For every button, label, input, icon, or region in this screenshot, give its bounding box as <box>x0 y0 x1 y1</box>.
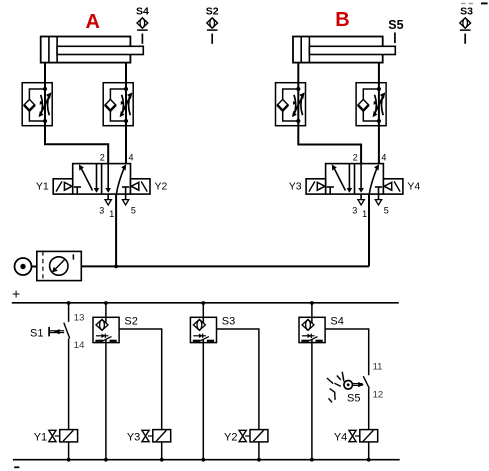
svg-text:1: 1 <box>362 209 367 219</box>
sensor position marker S2 <box>206 6 219 44</box>
wire Y2 to minus rail <box>258 442 260 460</box>
svg-text:Y1: Y1 <box>34 431 47 443</box>
junction minus rail x=105.9 <box>104 458 108 462</box>
one-way flow control valve cylinder A cap side <box>22 83 52 126</box>
svg-text:4: 4 <box>128 153 133 163</box>
coil Y3 <box>142 430 171 442</box>
port labels 2 4 3 1 5 <box>352 153 389 220</box>
junction minus rail x=311.9 <box>310 458 314 462</box>
wire supply manifold <box>81 265 369 267</box>
svg-text:A: A <box>86 11 100 33</box>
wire branch 2 lower <box>105 343 107 460</box>
svg-text:S4: S4 <box>330 316 343 328</box>
exhaust arrow port 5 <box>122 194 128 205</box>
pushbutton S1 <box>49 323 70 339</box>
junction minus rail x=368.7 <box>367 458 371 462</box>
cylinder B <box>293 37 395 63</box>
svg-text:11: 11 <box>373 362 383 373</box>
proximity switch S3 <box>190 317 216 342</box>
svg-text:Y1: Y1 <box>36 181 49 193</box>
cylinder A <box>41 37 144 63</box>
svg-text:Y3: Y3 <box>127 431 140 443</box>
svg-text:2: 2 <box>100 153 105 163</box>
svg-text:14: 14 <box>74 340 85 351</box>
svg-text:3: 3 <box>352 206 357 216</box>
junction minus rail x=161.7 <box>160 458 164 462</box>
wire S5 to Y4 <box>368 388 370 429</box>
exhaust arrow port 3 <box>358 194 364 205</box>
svg-text:Y4: Y4 <box>334 431 347 443</box>
svg-text:S4: S4 <box>136 6 149 18</box>
limit switch S5 (roller lever) <box>327 372 369 403</box>
svg-text:S5: S5 <box>388 18 403 32</box>
wire source to service unit <box>32 266 37 268</box>
wire Y4 to minus rail <box>368 442 370 460</box>
wire valve B port 1 to supply <box>368 194 370 266</box>
one-way flow control valve cylinder B cap side <box>276 83 306 126</box>
svg-text:12: 12 <box>373 390 384 401</box>
faint crop marks above S3 <box>461 3 473 5</box>
wire Y1 to minus rail <box>68 442 70 460</box>
wire branch 4 upper <box>311 303 313 317</box>
svg-text:1: 1 <box>109 209 114 219</box>
junction minus rail x=203.3 <box>201 458 205 462</box>
wire cylinder B right port to valve port 4 <box>378 63 380 164</box>
wire branch 4 lower <box>311 343 313 460</box>
svg-text:B: B <box>335 9 349 31</box>
junction plus rail x=311.9 <box>310 301 314 305</box>
contact pin labels 11 12 <box>373 362 384 401</box>
wire S4 output to S5 <box>325 329 369 375</box>
wire Y3 to minus rail <box>161 442 163 460</box>
wire branch 2 upper <box>105 303 107 317</box>
svg-text:13: 13 <box>74 312 85 323</box>
coil Y2 <box>239 430 268 442</box>
one-way flow control valve cylinder B rod side <box>356 83 386 126</box>
electrical rail plus <box>12 286 399 303</box>
electrical rail minus <box>13 460 400 468</box>
wire branch 3 lower <box>202 343 204 460</box>
svg-text:5: 5 <box>384 206 389 216</box>
service unit with pressure gauge <box>37 251 82 280</box>
svg-text:Y4: Y4 <box>407 181 420 193</box>
wire branch 3 upper <box>202 303 204 317</box>
solenoid Y3 <box>306 179 326 194</box>
svg-text:Y2: Y2 <box>224 431 237 443</box>
junction plus rail x=105.9 <box>104 301 108 305</box>
port labels 2 4 3 1 5 <box>99 153 136 220</box>
wire valve A port 1 to supply <box>115 194 117 266</box>
svg-text:Y3: Y3 <box>289 181 302 193</box>
svg-text:+: + <box>12 286 20 302</box>
exhaust arrow port 5 <box>375 194 381 205</box>
wire cylinder A right port to valve port 4 <box>125 63 127 164</box>
wire cylinder B left port to valve port 2 <box>298 63 361 164</box>
wire S2 output to Y3 <box>119 329 162 430</box>
junction plus rail x=203.3 <box>201 301 205 305</box>
svg-text:2: 2 <box>353 153 358 163</box>
solenoid Y1 <box>53 179 72 194</box>
svg-text:Y2: Y2 <box>155 181 168 193</box>
proximity switch S4 <box>299 317 325 342</box>
svg-text:S3: S3 <box>222 316 235 328</box>
wire S3 output to Y2 <box>217 329 259 430</box>
wire cylinder A left port to valve port 2 <box>45 63 108 164</box>
solenoid Y4 <box>383 179 403 194</box>
svg-text:4: 4 <box>381 153 386 163</box>
sensor position marker S3 <box>460 6 473 44</box>
svg-text:S5: S5 <box>347 393 360 405</box>
coil Y1 <box>49 430 78 442</box>
coil Y4 <box>349 430 378 442</box>
compressed air source <box>15 258 32 275</box>
svg-text:S1: S1 <box>30 327 43 339</box>
contact pin labels 13 14 <box>74 312 85 351</box>
svg-text:S2: S2 <box>206 6 219 18</box>
proximity switch S2 <box>93 317 119 342</box>
ruler end mark <box>481 2 488 4</box>
5/2-way valve Y3/Y4 <box>326 164 384 195</box>
one-way flow control valve cylinder A rod side <box>103 83 133 126</box>
svg-text:5: 5 <box>131 206 136 216</box>
junction minus rail x=258.9 <box>257 458 261 462</box>
solenoid Y2 <box>131 179 151 194</box>
sensor position marker S5 <box>388 18 403 43</box>
wire branch 1 lower <box>68 338 70 429</box>
wire branch 1 upper <box>68 303 70 322</box>
svg-text:S3: S3 <box>460 6 473 18</box>
junction minus rail x=68.6 <box>67 458 71 462</box>
svg-text:S2: S2 <box>124 316 137 328</box>
junction plus rail x=68.6 <box>67 301 71 305</box>
svg-text:3: 3 <box>99 206 104 216</box>
junction supply / valve A <box>114 265 118 269</box>
sensor position marker S4 <box>136 6 149 44</box>
exhaust arrow port 3 <box>105 194 111 205</box>
5/2-way valve Y1/Y2 <box>73 164 131 195</box>
